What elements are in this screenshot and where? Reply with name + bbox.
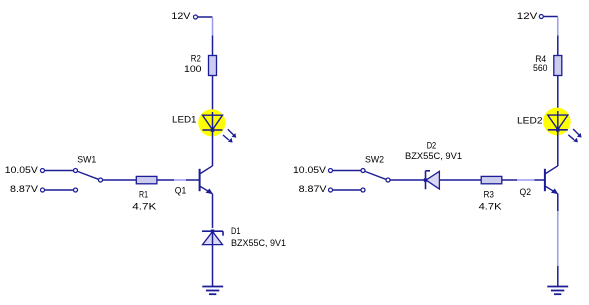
wire light segment before Q1 base [174, 179, 186, 181]
wire D2 to R3 [439, 179, 481, 181]
wire light segment before Q2 base [517, 179, 534, 181]
resistor R3 [479, 176, 502, 211]
terminal 8.87V (left) [41, 188, 45, 192]
terminal 12V (right) [539, 15, 543, 19]
wire R2 to LED1 [212, 76, 214, 116]
wire D1 to ground [212, 231, 214, 286]
wire SW2 pole to D2 [391, 179, 426, 181]
svg-text:Q2: Q2 [520, 187, 532, 197]
svg-text:LED1: LED1 [172, 115, 197, 125]
wire 12V to R2 (left) [212, 36, 214, 56]
terminal 8.87V (right) [329, 188, 333, 192]
terminal 12V (left) [194, 15, 198, 19]
svg-text:SW2: SW2 [365, 155, 384, 165]
svg-text:R1: R1 [139, 190, 148, 200]
wire 12V vertical light segment (right) [557, 17, 559, 35]
svg-text:4.7K: 4.7K [132, 202, 156, 212]
wire 10.05V to SW1 throw [45, 170, 73, 172]
wire Q2 emitter light segment [557, 211, 559, 266]
wire SW1 pole to R1 [103, 179, 137, 181]
svg-text:560: 560 [533, 63, 548, 73]
wire R3 to Q2 base (dark part) [502, 179, 517, 181]
switch SW1 [74, 155, 103, 193]
zener diode D2 [405, 140, 462, 189]
svg-text:12V: 12V [517, 11, 538, 21]
transistor Q1 [175, 166, 213, 196]
wire to ground (right) [557, 266, 559, 286]
wire 8.87V to SW2 throw [333, 189, 361, 191]
wire 12V horizontal (right) [544, 16, 558, 18]
wire LED2 to Q2 collector [557, 130, 559, 166]
svg-text:8.87V: 8.87V [10, 184, 38, 194]
wire R4 to LED2 [557, 76, 559, 116]
wire to Q2 base [534, 179, 545, 181]
wire 12V to R4 [557, 36, 559, 56]
wire 8.87V to SW1 throw [45, 189, 73, 191]
resistor R2 [184, 54, 217, 76]
svg-text:SW1: SW1 [77, 155, 96, 165]
svg-text:Q1: Q1 [175, 186, 187, 196]
svg-text:100: 100 [184, 64, 202, 74]
svg-text:BZX55C, 9V1: BZX55C, 9V1 [231, 238, 286, 248]
zener diode D1 [202, 226, 286, 248]
svg-text:D1: D1 [231, 226, 241, 236]
wire 12V vertical light segment (left) [212, 18, 214, 36]
transistor Q2 [520, 166, 559, 197]
switch SW2 [361, 155, 390, 193]
svg-text:10.05V: 10.05V [293, 165, 326, 175]
terminal 10.05V (left) [41, 169, 45, 173]
wire LED1 to Q1 collector [212, 130, 214, 166]
wire Q2 emitter down (dark) [557, 194, 559, 211]
wire 12V horizontal (left) [198, 16, 213, 18]
svg-text:10.05V: 10.05V [5, 165, 38, 175]
LED D LED1 [172, 109, 236, 142]
resistor R4 [533, 54, 562, 76]
wire 10.05V to SW2 throw [333, 170, 361, 172]
svg-text:R3: R3 [484, 189, 495, 199]
terminal 10.05V (right) [329, 169, 333, 173]
svg-text:R2: R2 [191, 54, 201, 64]
svg-text:8.87V: 8.87V [299, 184, 327, 194]
svg-text:D2: D2 [427, 140, 437, 150]
resistor R1 [132, 176, 157, 211]
svg-text:BZX55C, 9V1: BZX55C, 9V1 [405, 151, 462, 161]
ground (right) [547, 287, 568, 295]
svg-text:12V: 12V [171, 11, 190, 21]
svg-text:4.7K: 4.7K [479, 202, 502, 212]
wire R1 to Q1 base (dark part) [157, 179, 174, 181]
svg-text:LED2: LED2 [517, 116, 543, 126]
LED D LED2 [517, 108, 582, 143]
ground (left) [202, 287, 223, 295]
wire Q1 emitter to D1 [212, 194, 214, 228]
wire to Q1 base [186, 179, 200, 181]
